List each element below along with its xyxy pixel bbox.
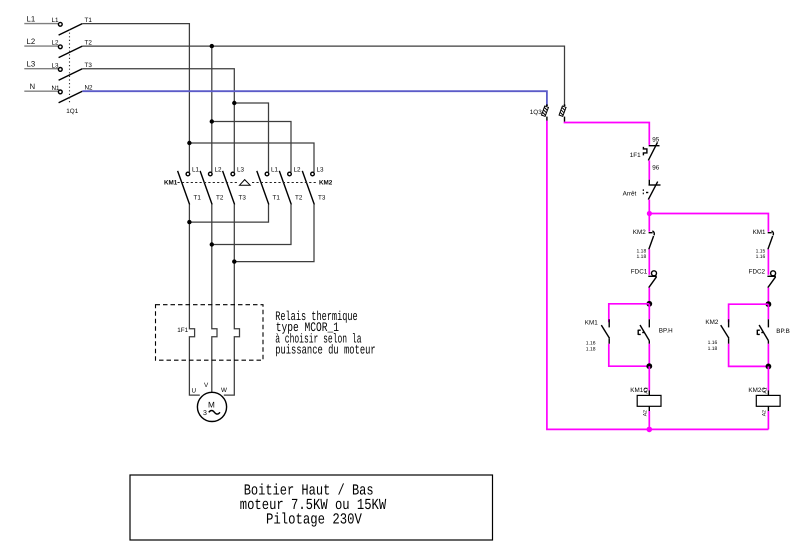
svg-text:KM2: KM2 [705, 319, 718, 326]
wire FDC1 to parallel node [648, 288, 650, 304]
push button BP.H NO [638, 304, 673, 344]
svg-text:FDC1: FDC1 [631, 268, 648, 275]
node L3 label [27, 60, 36, 69]
junction T2 branch [210, 119, 214, 123]
wire KM1 aux bottom [609, 344, 650, 366]
svg-text:N1: N1 [52, 85, 61, 92]
svg-text:KM2: KM2 [633, 229, 646, 236]
wire T1 [82, 24, 189, 173]
wire T3 to KM2-L1 [234, 103, 268, 172]
svg-text:1Q3: 1Q3 [530, 109, 542, 116]
disconnect switch 1Q1 pole 4 (N/N2) [52, 85, 94, 103]
contact KM2 NC interlock [633, 229, 655, 260]
junction parallel bottom (KM1 branch) [646, 363, 652, 369]
wire N input [24, 90, 58, 92]
junction T1 branch [187, 141, 191, 145]
svg-text:T2: T2 [216, 194, 224, 201]
node L1 label [27, 15, 36, 24]
wire parallel left up (KM2 aux) [729, 304, 769, 322]
svg-text:L1: L1 [192, 166, 200, 173]
push button BP.B NO [757, 304, 790, 344]
svg-text:T1: T1 [194, 194, 202, 201]
contactor KM1 pole L1/T1 [178, 166, 202, 204]
wire parallel left up (KM1 aux) [609, 304, 650, 322]
wire L2 input [24, 45, 58, 47]
limit switch FDC1 NC [631, 268, 657, 287]
svg-text:L3: L3 [52, 62, 60, 69]
svg-text:1Q1: 1Q1 [66, 108, 78, 115]
svg-text:1.16: 1.16 [756, 254, 766, 260]
1Q1 linkage dotted line [69, 29, 71, 104]
push button Arret NC [623, 180, 661, 200]
junction KM2-T3 [232, 259, 236, 263]
wire KM2C to rail [767, 411, 769, 429]
disconnect switch 1Q1 pole 3 (L3/T3) [52, 62, 93, 80]
junction parallel top (KM1 branch) [646, 301, 652, 307]
svg-text:M: M [208, 401, 215, 410]
wire T2 to KM2-L2 [212, 122, 291, 173]
contactor KM2 pole L2/T2 [279, 166, 303, 204]
svg-text:BP.H: BP.H [659, 328, 673, 335]
wire node down left branch [648, 214, 650, 232]
svg-text:A2: A2 [643, 410, 649, 416]
svg-text:KM2: KM2 [319, 180, 333, 187]
svg-text:W: W [221, 387, 227, 394]
svg-text:1.18: 1.18 [637, 254, 647, 260]
node N label [30, 82, 36, 91]
svg-text:T3: T3 [85, 62, 93, 69]
text Relais thermique note [275, 309, 376, 357]
wire KM2NC to FDC1 [648, 249, 650, 274]
junction parallel top (KM2 branch) [766, 301, 772, 307]
wire to coil KM1C [648, 366, 650, 390]
wire FDC2 to parallel node [767, 288, 769, 305]
wire to coil KM2C [767, 366, 769, 390]
wire T2 drop to KM1 [211, 46, 213, 172]
wire KM1NC to FDC2 [767, 249, 769, 274]
wire KM1-T3 to motor W (with thermal element) [224, 205, 240, 396]
svg-text:L1: L1 [52, 17, 60, 24]
wire T3 [82, 69, 234, 173]
svg-text:T2: T2 [295, 194, 303, 201]
svg-text:L2: L2 [52, 40, 60, 47]
contactor KM1 pole L2/T2 [200, 166, 224, 204]
wire KM1-T2 to motor V (with thermal element) [212, 205, 217, 393]
wire control phase to 1F1 contact [565, 122, 650, 145]
wire neutral rail (magenta left+bottom) [547, 121, 769, 430]
junction rail [647, 427, 653, 433]
svg-text:A1: A1 [644, 387, 650, 393]
node L2 label [27, 37, 36, 46]
contactor linkage dashed line [178, 182, 318, 184]
coil KM1C [630, 387, 661, 416]
svg-text:N: N [30, 82, 36, 91]
svg-text:KM1: KM1 [164, 180, 178, 187]
svg-text:Arrêt: Arrêt [623, 190, 637, 197]
svg-text:L3: L3 [27, 60, 36, 69]
svg-text:L1: L1 [271, 166, 279, 173]
junction KM2-T2 [210, 242, 214, 246]
svg-text:A1: A1 [763, 387, 769, 393]
svg-text:KM1: KM1 [585, 320, 598, 327]
junction T2/KM1-L2 [210, 44, 214, 48]
wire T1 to KM2-L3 [189, 143, 314, 172]
wire N2 (blue neutral) [82, 91, 547, 105]
thermal relay 1F1 dashed box [156, 305, 264, 361]
svg-text:FDC2: FDC2 [749, 268, 766, 275]
wire KM1-T1 to motor U (with thermal element) [189, 205, 199, 396]
svg-text:T3: T3 [239, 194, 247, 201]
junction KM2-T1 [187, 220, 191, 224]
node split [647, 211, 652, 216]
wire T2 [82, 46, 564, 105]
1F1 label [177, 327, 188, 334]
title text [240, 482, 387, 529]
svg-text:L1: L1 [27, 15, 36, 24]
wire BP.H bottom [648, 344, 650, 366]
contact KM1 aux NO (hold) [585, 319, 610, 352]
wire 96 to Arret [648, 160, 650, 179]
contactor KM2 pole L3/T3 [302, 166, 326, 204]
svg-text:1.18: 1.18 [586, 346, 596, 352]
svg-text:3: 3 [203, 410, 207, 417]
disconnect switch 1Q1 pole 2 (L2/T2) [52, 39, 93, 57]
contact KM2 aux NO (hold) [705, 319, 729, 352]
svg-text:T3: T3 [318, 194, 326, 201]
1Q1 label [66, 108, 78, 115]
motor M 3~ [192, 382, 228, 422]
disconnect switch 1Q1 pole 1 (L1/T1) [52, 17, 93, 35]
svg-text:BP.B: BP.B [776, 328, 790, 335]
svg-text:A2: A2 [762, 410, 768, 416]
coil KM2C [748, 387, 780, 416]
svg-text:96: 96 [652, 164, 660, 171]
svg-text:KM1: KM1 [753, 229, 766, 236]
contactor KM2 pole L1/T1 [257, 166, 281, 204]
KM1 label [164, 180, 178, 187]
wire BP.B bottom [767, 344, 769, 367]
svg-text:T2: T2 [85, 39, 93, 46]
wire KM2 aux bottom [729, 344, 769, 367]
breaker 1Q3 pole A (neutral, blue feed) [541, 104, 548, 121]
breaker 1Q3 pole B (phase feed) [559, 104, 566, 122]
wire KM2-T3 join [234, 205, 314, 262]
svg-text:T1: T1 [273, 194, 281, 201]
KM2 label [319, 180, 333, 187]
limit switch FDC2 NC [749, 268, 776, 287]
svg-text:U: U [192, 387, 197, 394]
svg-text:L3: L3 [317, 166, 325, 173]
wire L1 input [24, 23, 58, 25]
delta symbol triangle [240, 180, 251, 186]
svg-text:Pilotage 230V: Pilotage 230V [266, 511, 363, 529]
wire Arret to node [648, 200, 650, 214]
wire node to right branch [649, 214, 768, 232]
svg-text:L3: L3 [237, 166, 245, 173]
svg-text:1F1: 1F1 [177, 327, 188, 334]
contact KM1 NC interlock [753, 229, 774, 260]
svg-text:L2: L2 [215, 166, 223, 173]
svg-text:1F1: 1F1 [630, 152, 641, 159]
svg-text:T1: T1 [85, 17, 93, 24]
junction parallel bottom (KM2 branch) [766, 364, 772, 370]
svg-text:L2: L2 [294, 166, 302, 173]
wire L3 input [24, 68, 58, 70]
svg-text:puissance du moteur: puissance du moteur [275, 342, 376, 357]
svg-text:1.18: 1.18 [708, 346, 718, 352]
wire KM2-T2 join [212, 205, 291, 245]
1Q3 label [530, 109, 542, 116]
wire KM2-T1 join [189, 205, 268, 223]
svg-text:L2: L2 [27, 37, 36, 46]
svg-text:95: 95 [652, 136, 660, 143]
wire KM1C to rail [648, 411, 650, 429]
contactor KM1 pole L3/T3 [223, 166, 247, 204]
contact 1F1 NC (95-96) [630, 136, 660, 171]
junction T3 branch [232, 101, 236, 105]
title box [130, 475, 493, 540]
